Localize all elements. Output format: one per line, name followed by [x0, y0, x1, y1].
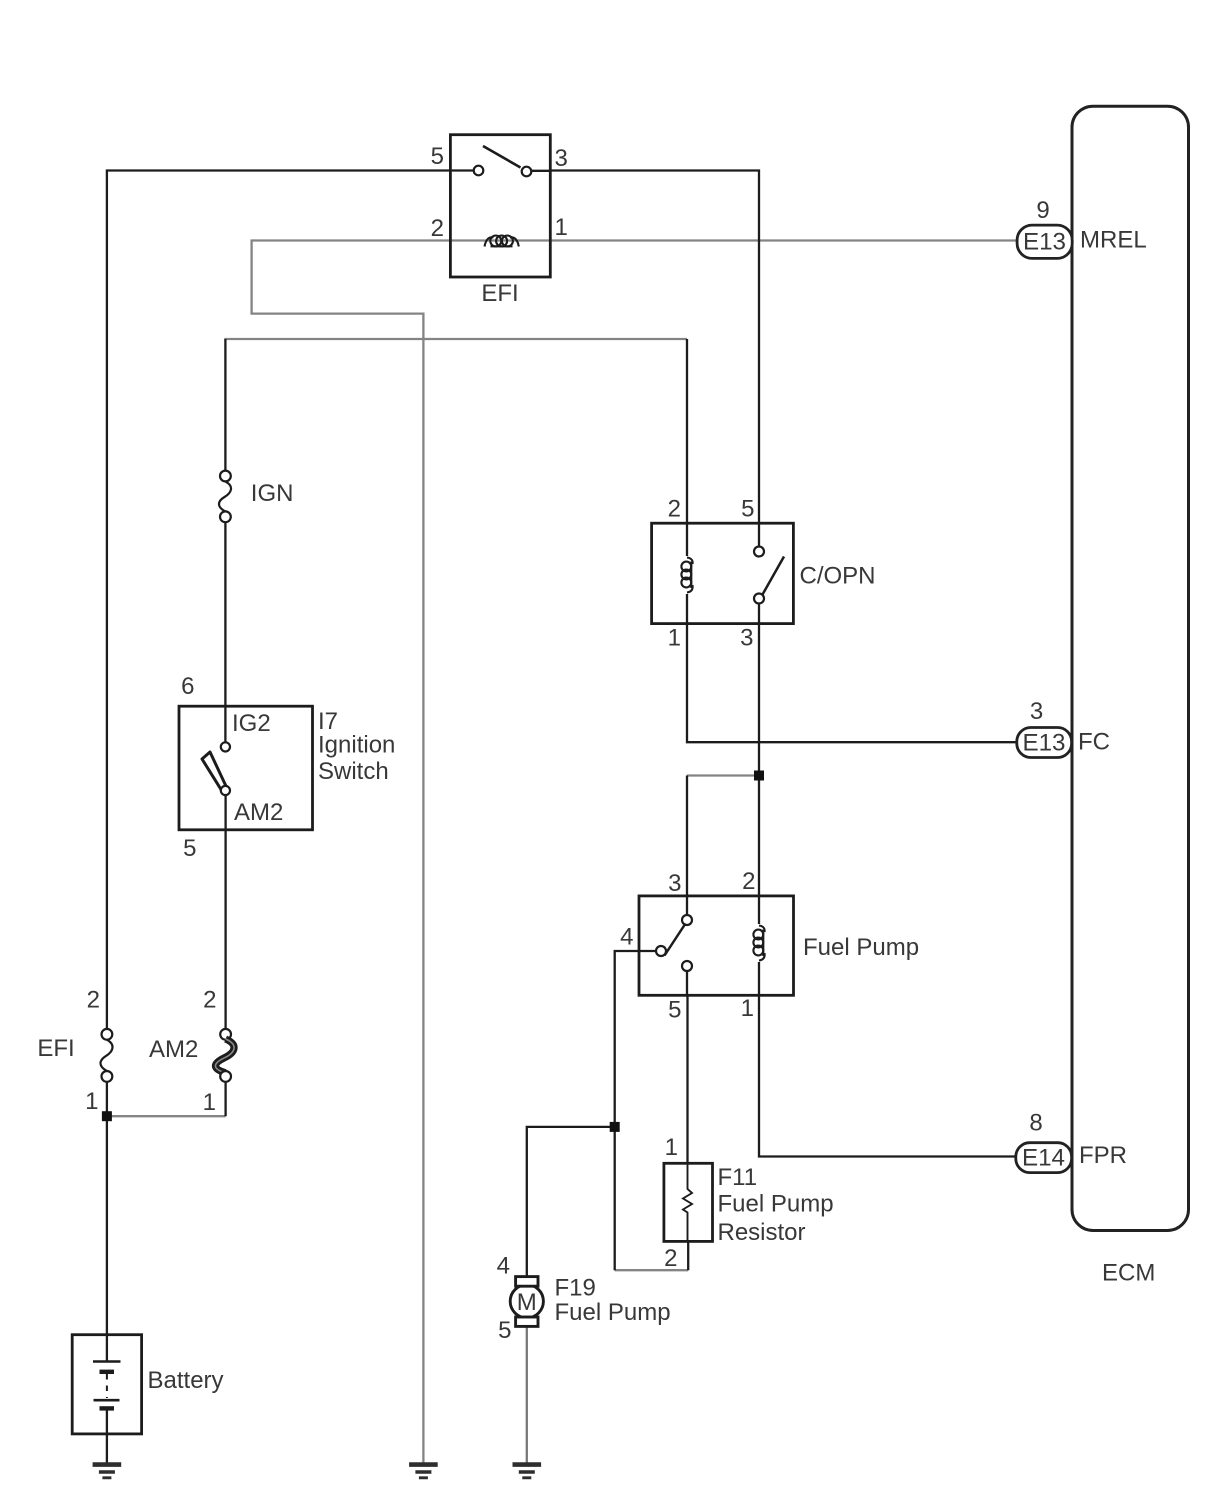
- svg-text:Fuel Pump: Fuel Pump: [718, 1191, 834, 1218]
- svg-text:5: 5: [183, 835, 196, 862]
- svg-text:MREL: MREL: [1080, 227, 1147, 254]
- svg-text:E13: E13: [1022, 730, 1065, 757]
- svg-text:Ignition: Ignition: [318, 732, 395, 759]
- svg-text:M: M: [517, 1289, 537, 1316]
- svg-text:Switch: Switch: [318, 758, 389, 785]
- svg-text:2: 2: [203, 987, 216, 1014]
- svg-text:6: 6: [181, 673, 194, 700]
- svg-text:E14: E14: [1022, 1145, 1065, 1172]
- svg-text:AM2: AM2: [149, 1036, 198, 1063]
- svg-text:2: 2: [664, 1245, 677, 1272]
- svg-text:1: 1: [665, 1134, 678, 1161]
- svg-text:Fuel Pump: Fuel Pump: [555, 1299, 671, 1326]
- svg-text:3: 3: [740, 625, 753, 652]
- svg-text:Battery: Battery: [148, 1367, 224, 1394]
- svg-text:E13: E13: [1023, 229, 1066, 256]
- svg-text:5: 5: [668, 997, 681, 1024]
- svg-text:1: 1: [85, 1088, 98, 1115]
- svg-text:2: 2: [668, 496, 681, 523]
- svg-text:Resistor: Resistor: [718, 1219, 806, 1246]
- svg-text:1: 1: [741, 995, 754, 1022]
- svg-text:IG2: IG2: [232, 710, 271, 737]
- svg-text:3: 3: [555, 145, 568, 172]
- svg-text:AM2: AM2: [234, 799, 283, 826]
- svg-text:4: 4: [620, 924, 633, 951]
- svg-text:4: 4: [497, 1253, 510, 1280]
- svg-text:1: 1: [668, 625, 681, 652]
- svg-text:2: 2: [742, 868, 755, 895]
- svg-text:9: 9: [1036, 197, 1049, 224]
- svg-text:1: 1: [555, 214, 568, 241]
- svg-text:FPR: FPR: [1079, 1142, 1127, 1169]
- svg-text:IGN: IGN: [251, 480, 294, 507]
- svg-text:3: 3: [1030, 698, 1043, 725]
- svg-text:FC: FC: [1078, 729, 1110, 756]
- svg-text:EFI: EFI: [481, 280, 518, 307]
- svg-text:2: 2: [431, 215, 444, 242]
- svg-text:5: 5: [431, 143, 444, 170]
- svg-text:F19: F19: [555, 1275, 596, 1302]
- svg-text:F11: F11: [718, 1164, 758, 1191]
- svg-text:ECM: ECM: [1102, 1260, 1155, 1287]
- svg-text:5: 5: [741, 496, 754, 523]
- svg-text:8: 8: [1029, 1110, 1042, 1137]
- svg-text:2: 2: [87, 987, 100, 1014]
- svg-text:1: 1: [203, 1089, 216, 1116]
- svg-text:C/OPN: C/OPN: [800, 563, 876, 590]
- svg-text:Fuel Pump: Fuel Pump: [803, 934, 919, 961]
- svg-text:5: 5: [498, 1317, 511, 1344]
- svg-text:3: 3: [668, 870, 681, 897]
- svg-text:EFI: EFI: [37, 1035, 74, 1062]
